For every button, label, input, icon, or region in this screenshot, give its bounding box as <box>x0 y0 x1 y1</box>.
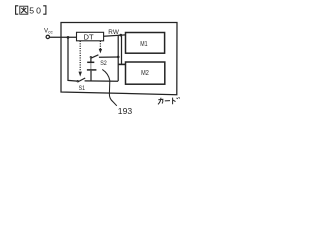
figure title bracket right 】 <box>43 6 46 14</box>
power rail riser <box>117 35 119 81</box>
control line from DT to S1 (dashed) <box>79 41 81 72</box>
memory M2 box <box>126 62 165 84</box>
svg-text:M1: M1 <box>140 39 147 48</box>
card label カード <box>158 97 180 104</box>
kanji 図 (figure) <box>20 6 28 14</box>
junction node on Vcc wire <box>67 36 70 39</box>
svg-text:S2: S2 <box>100 60 107 67</box>
switch S2 contact <box>90 56 92 58</box>
figure title bracket left 【 <box>16 6 19 14</box>
wire power rail down and bottom wire to S1 <box>68 37 77 81</box>
capacitor C bottom plate <box>87 69 97 71</box>
svg-text:cc: cc <box>48 29 53 34</box>
junction node with S2 wire <box>117 56 120 59</box>
wire S2 to rail junction <box>99 56 118 58</box>
switch S2 lever <box>91 55 99 59</box>
svg-text:DT: DT <box>84 32 94 41</box>
svg-text:S1: S1 <box>79 85 86 92</box>
Vcc terminal <box>46 35 49 38</box>
arrowhead to S2 <box>99 49 102 54</box>
RW rail down to M2 <box>121 35 123 64</box>
detector DT box <box>77 32 104 41</box>
katakana カ <box>158 98 163 105</box>
wire tap to M2 <box>118 63 125 65</box>
leader line for 193 <box>102 69 117 105</box>
memory M1 box <box>126 33 165 54</box>
switch S1 lever <box>78 78 86 82</box>
wire DT to M1 (RW line) <box>104 35 126 36</box>
katakana ド <box>173 97 180 104</box>
control line from DT to S2 (dashed) <box>99 41 101 49</box>
capacitor C lead to bottom wire <box>90 71 92 81</box>
switch S1 contact <box>77 80 79 82</box>
capacitor C lead from S2 <box>90 58 92 62</box>
svg-text:M2: M2 <box>141 68 149 77</box>
capacitor C inter-plate lead <box>90 63 92 69</box>
svg-text:50: 50 <box>29 6 43 16</box>
wire after S1 to power rail riser <box>85 80 118 82</box>
junction node on RW wire <box>119 34 122 37</box>
svg-text:193: 193 <box>118 106 133 116</box>
card outer box <box>61 23 177 95</box>
wire Vcc to DT <box>50 36 77 38</box>
capacitor C top plate <box>87 61 94 63</box>
arrowhead to S1 <box>79 72 82 77</box>
katakana ー <box>165 100 170 102</box>
